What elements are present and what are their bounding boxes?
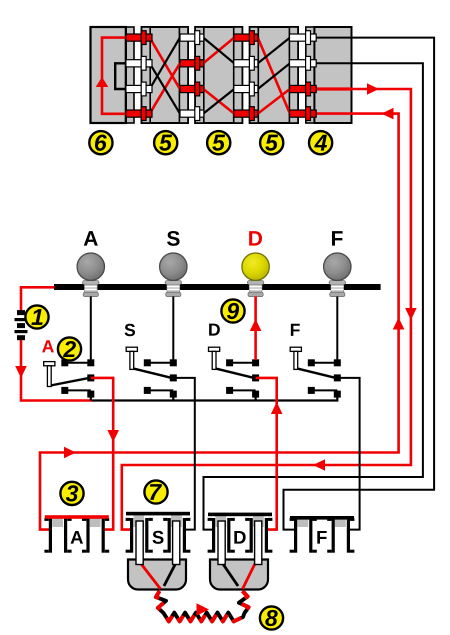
rotor R2 internal wiring — [203, 38, 234, 114]
label circle 5 rotor3 — [260, 131, 283, 154]
label circle 3 plug A — [60, 482, 83, 505]
rotor R3 body — [250, 27, 298, 123]
plug D to key D wire (red, current up) — [256, 378, 283, 530]
wire entry row2 to socket D feed (black) — [204, 63, 423, 529]
lamp label D — [249, 231, 262, 245]
rotor R1 body — [142, 27, 188, 123]
label circle 2 key A — [58, 337, 81, 360]
socket D — [208, 513, 273, 553]
label circle 6 reflector — [89, 131, 112, 154]
battery bus red segment — [21, 399, 92, 402]
key switch D — [209, 347, 260, 400]
lamp S wire — [172, 296, 174, 360]
key label D — [209, 324, 220, 336]
reflector U6 body — [91, 27, 135, 123]
contact pins junction 3 — [234, 31, 258, 121]
lamp F — [324, 253, 351, 297]
battery B1 — [15, 287, 55, 401]
wire entry row1 to socket F feed (black) — [284, 38, 435, 530]
rotor R2 body — [195, 27, 242, 123]
lamp S — [160, 253, 187, 297]
plug body in socket D — [210, 560, 268, 590]
plug D internal wires — [222, 562, 256, 589]
plug body in socket S — [128, 560, 186, 590]
socket D plug prongs — [218, 521, 225, 565]
key F to plug F wire (black) — [337, 378, 359, 530]
lamp label F — [332, 231, 343, 245]
lamp D wire (red, current up) — [250, 296, 262, 360]
contact pins junction 1 — [126, 31, 152, 121]
label circle 8 cable — [260, 606, 283, 629]
label circle 9 lamp D switch — [221, 299, 244, 322]
reflector internal black loop row2->row3 — [115, 63, 127, 89]
key label F — [291, 324, 300, 336]
lamp label S — [167, 231, 180, 246]
key label A (red, pressed) — [42, 340, 54, 352]
reflector internal red return loop row4->row1 — [96, 38, 127, 114]
label circle 5 rotor1 — [154, 131, 177, 154]
contact pins junction 4 — [290, 31, 317, 121]
key S to plug S wire (black) — [173, 378, 195, 530]
lamp label A — [84, 231, 98, 245]
entry wheel internal wires — [314, 38, 351, 114]
socket A (closed, shorting bar red) — [44, 515, 109, 553]
key A to plug A wire (red, current down) — [91, 378, 119, 530]
wire entry row3 to socket S feed (red, current down) — [122, 83, 417, 529]
key switch A — [44, 359, 95, 400]
contact pins junction 2 — [180, 31, 204, 121]
key label S — [125, 324, 135, 336]
key switch S — [126, 347, 177, 400]
wire socket A to entry row4 (red, current up) — [40, 108, 404, 530]
label circle 5 rotor2 — [207, 131, 230, 154]
lamp panel bar — [54, 284, 381, 290]
entry wheel U4 body — [306, 27, 352, 123]
patch cable 8 from plug S to plug D — [156, 591, 249, 621]
label circle 7 plug S — [144, 480, 167, 503]
plug S internal wires — [140, 562, 177, 589]
rotor R1 internal wiring — [150, 38, 180, 114]
lamp A — [77, 253, 104, 297]
socket F (closed, unused) — [290, 516, 355, 553]
socket S plug prongs — [136, 521, 143, 565]
lamp D — [242, 253, 269, 297]
socket S — [126, 512, 191, 553]
rotor R3 internal wiring — [258, 38, 290, 114]
label circle 1 battery — [25, 305, 48, 328]
lamp F wire — [336, 296, 338, 360]
key switch F — [290, 347, 341, 400]
lamp A wire — [90, 296, 92, 360]
label circle 4 entry wheel — [309, 131, 332, 154]
battery bus black segment — [92, 399, 338, 401]
